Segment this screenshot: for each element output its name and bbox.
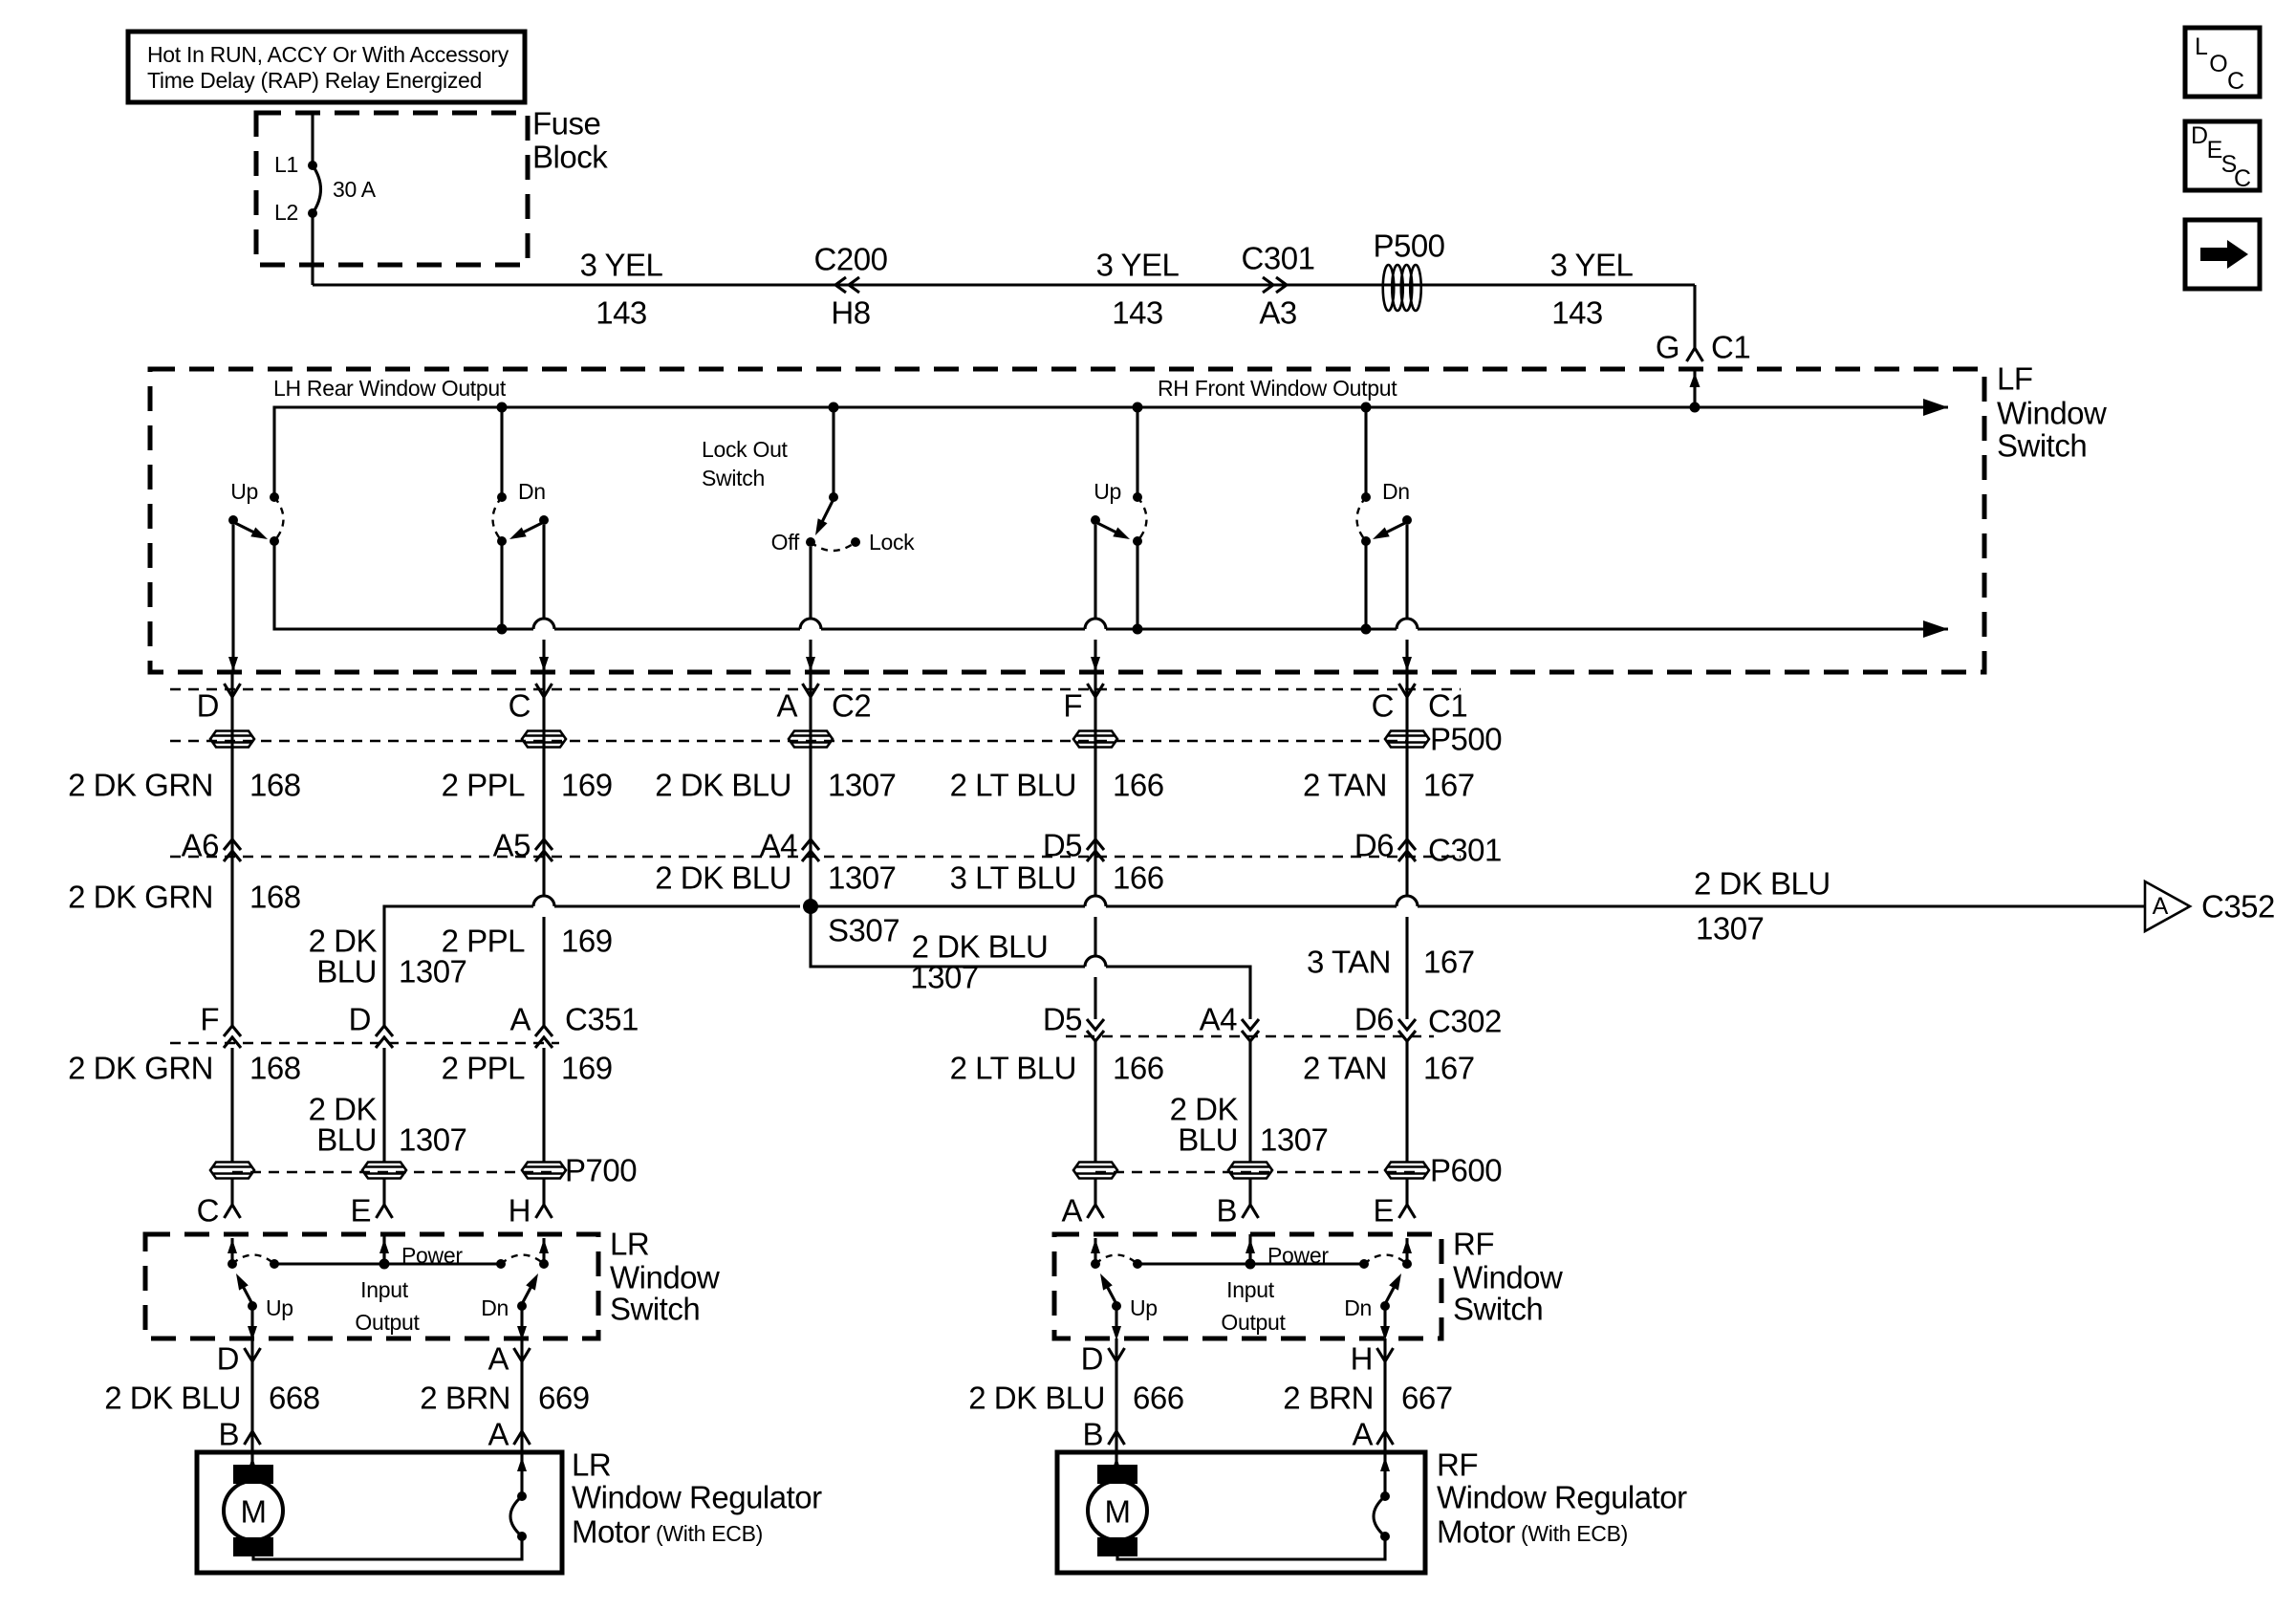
- svg-text:3 YEL: 3 YEL: [1096, 248, 1180, 283]
- svg-text:Power: Power: [1267, 1243, 1329, 1268]
- LH rear Dn switch: [497, 402, 508, 413]
- grommet P600 at x=1146: [1073, 1163, 1117, 1179]
- svg-text:1307: 1307: [399, 954, 466, 990]
- pin D5 of connector C301 at x=1146: [1087, 839, 1104, 850]
- svg-text:2 TAN: 2 TAN: [1303, 768, 1387, 803]
- svg-text:H: H: [1351, 1341, 1373, 1377]
- svg-text:Input: Input: [1226, 1277, 1275, 1302]
- svg-text:O: O: [2209, 51, 2227, 77]
- svg-text:F: F: [200, 1002, 219, 1037]
- svg-text:A4: A4: [760, 828, 798, 863]
- svg-text:LH Rear Window Output: LH Rear Window Output: [273, 376, 507, 401]
- pins into LR window switch C E H: [225, 1205, 241, 1218]
- LR switch dashed contact arcs: [232, 1255, 274, 1265]
- svg-text:Dn: Dn: [1382, 479, 1410, 504]
- svg-text:Output: Output: [355, 1310, 420, 1335]
- svg-text:143: 143: [596, 295, 647, 331]
- connector C302 dashed line: [1066, 1035, 1434, 1037]
- svg-text:3 YEL: 3 YEL: [1550, 248, 1634, 283]
- svg-text:BLU: BLU: [1178, 1122, 1238, 1158]
- svg-text:Output: Output: [1221, 1310, 1286, 1335]
- connector C2 C1 dashed line: [170, 688, 1461, 690]
- pin fork below RF switch right: [1383, 1338, 1386, 1496]
- svg-text:S307: S307: [828, 913, 899, 948]
- connector C351 dashed line: [170, 1042, 559, 1044]
- svg-text:Window: Window: [610, 1260, 720, 1295]
- svg-text:A: A: [1352, 1417, 1373, 1452]
- pin D5 of connector C302 at x=1146: [1087, 1019, 1104, 1030]
- svg-text:C: C: [2234, 165, 2251, 192]
- svg-text:C: C: [1372, 688, 1394, 724]
- svg-text:Switch: Switch: [1453, 1292, 1543, 1327]
- svg-text:L1: L1: [274, 152, 298, 177]
- wire drop to pin G of C1 on LF window switch: [1693, 285, 1696, 348]
- svg-text:2 DK BLU: 2 DK BLU: [968, 1381, 1105, 1416]
- grommet P700 at x=402: [362, 1163, 406, 1179]
- svg-text:A: A: [487, 1417, 509, 1452]
- pin D6 of connector C302 at x=1472: [1398, 1019, 1416, 1030]
- svg-text:A: A: [1061, 1193, 1082, 1229]
- svg-text:667: 667: [1401, 1381, 1453, 1416]
- off-page arrow pin A connector C352: [2145, 881, 2190, 931]
- lower bus wire inside LF switch: [274, 541, 533, 629]
- pin F of connector C351 at x=243: [224, 1026, 241, 1036]
- svg-text:Lock Out: Lock Out: [702, 437, 789, 462]
- LR switch Dn contact arm and output: [517, 1301, 527, 1311]
- LR motor pin forks: [245, 1431, 261, 1445]
- svg-text:1307: 1307: [1260, 1122, 1328, 1158]
- RH front Dn switch: [1361, 402, 1372, 413]
- LR switch power input line: [274, 1262, 501, 1265]
- svg-text:Window Regulator: Window Regulator: [572, 1480, 822, 1515]
- svg-text:2 DK BLU: 2 DK BLU: [655, 860, 791, 896]
- svg-text:Dn: Dn: [518, 479, 546, 504]
- svg-text:Window: Window: [1453, 1260, 1563, 1295]
- RF switch Dn contact arm and output: [1380, 1301, 1390, 1311]
- wire 2 PPL 169 below C301 with hop over S307 bus: [542, 857, 545, 896]
- svg-text:3 LT BLU: 3 LT BLU: [950, 860, 1076, 896]
- pin A5 of connector C301 at x=569: [535, 839, 552, 850]
- grommet P500 at x=569: [542, 730, 545, 857]
- svg-text:Window: Window: [1997, 396, 2107, 431]
- svg-text:A: A: [2153, 893, 2169, 920]
- wires from C351 down to P700 grommets: [230, 1048, 233, 1162]
- svg-text:Up: Up: [230, 479, 258, 504]
- svg-text:H8: H8: [831, 295, 870, 331]
- svg-text:1307: 1307: [399, 1122, 466, 1158]
- svg-text:143: 143: [1551, 295, 1603, 331]
- pin D6 of connector C301 at x=1472: [1398, 839, 1416, 850]
- svg-text:167: 167: [1423, 768, 1475, 803]
- svg-text:A: A: [487, 1341, 509, 1377]
- pin A4 of connector C301 at x=848: [802, 839, 819, 850]
- svg-text:Dn: Dn: [1344, 1295, 1372, 1320]
- grommet P600 at x=1308: [1228, 1163, 1272, 1179]
- svg-text:2 DK BLU: 2 DK BLU: [104, 1381, 241, 1416]
- svg-text:RF: RF: [1453, 1227, 1494, 1262]
- svg-text:F: F: [1063, 688, 1082, 724]
- svg-text:C302: C302: [1428, 1004, 1502, 1039]
- svg-text:Motor: Motor: [572, 1514, 650, 1550]
- svg-text:A: A: [776, 688, 797, 724]
- svg-text:BLU: BLU: [316, 954, 377, 990]
- svg-text:E: E: [1373, 1193, 1394, 1229]
- svg-text:E: E: [350, 1193, 371, 1229]
- svg-text:L: L: [2195, 33, 2208, 60]
- svg-text:Window Regulator: Window Regulator: [1437, 1480, 1687, 1515]
- svg-text:1307: 1307: [828, 860, 896, 896]
- grommet P500 at x=1472: [1405, 730, 1408, 857]
- svg-text:P700: P700: [565, 1153, 637, 1188]
- svg-text:2 BRN: 2 BRN: [420, 1381, 510, 1416]
- grommet P500 at x=848: [809, 730, 812, 857]
- grommet P500 at x=1146: [1094, 730, 1096, 857]
- svg-text:169: 169: [561, 924, 613, 959]
- svg-text:G: G: [1656, 330, 1679, 365]
- svg-text:C2: C2: [832, 688, 871, 724]
- LH rear Up switch: [270, 492, 279, 502]
- svg-text:2 TAN: 2 TAN: [1303, 1051, 1387, 1086]
- svg-text:C351: C351: [565, 1002, 639, 1037]
- RF switch dashed contact arcs: [1095, 1255, 1137, 1265]
- svg-text:LF: LF: [1997, 361, 2033, 397]
- svg-text:C301: C301: [1242, 241, 1315, 276]
- svg-text:C352: C352: [2201, 889, 2275, 925]
- note box: Hot In RUN, ACCY Or With Accessory Time Delay (RAP) Relay Energized: [128, 32, 525, 102]
- LF window switch dashed box: [150, 369, 1984, 672]
- RF switch Up contact arm and output: [1112, 1301, 1121, 1311]
- svg-text:D: D: [1081, 1341, 1103, 1377]
- svg-text:D6: D6: [1354, 828, 1394, 863]
- svg-text:3 YEL: 3 YEL: [580, 248, 663, 283]
- svg-text:D: D: [217, 1341, 239, 1377]
- svg-text:2 PPL: 2 PPL: [442, 924, 526, 959]
- junction dot G wire to top bus: [1690, 402, 1700, 413]
- svg-text:C200: C200: [814, 242, 888, 277]
- svg-text:666: 666: [1133, 1381, 1184, 1416]
- svg-text:Time Delay (RAP) Relay Energiz: Time Delay (RAP) Relay Energized: [147, 68, 482, 93]
- svg-text:2 DK BLU: 2 DK BLU: [655, 768, 791, 803]
- grommet row P600 dashed line: [1095, 1171, 1418, 1173]
- svg-text:1307: 1307: [1696, 911, 1764, 946]
- pin D of connector C351 at x=402: [376, 1026, 393, 1036]
- svg-text:Switch: Switch: [1997, 428, 2087, 464]
- connector C200 pin H8 inline arrows: [835, 277, 846, 293]
- grommet P700 at x=243: [210, 1163, 254, 1179]
- svg-text:2 DK GRN: 2 DK GRN: [68, 768, 213, 803]
- fuse F 30A with terminals L1 L2: [311, 113, 314, 165]
- pin D fork of connector row C2/C1 at x=243: [230, 672, 233, 730]
- LR switch Up contact arm and output: [248, 1301, 257, 1311]
- svg-text:RF: RF: [1437, 1447, 1478, 1483]
- svg-text:166: 166: [1113, 768, 1164, 803]
- svg-text:L2: L2: [274, 200, 298, 225]
- grommet row P500 dashed line: [170, 740, 1407, 742]
- svg-text:P500: P500: [1430, 722, 1502, 757]
- svg-text:2 PPL: 2 PPL: [442, 1051, 526, 1086]
- svg-text:2 DK GRN: 2 DK GRN: [68, 880, 213, 915]
- svg-text:Hot In RUN, ACCY Or With Acces: Hot In RUN, ACCY Or With Accessory: [147, 42, 509, 67]
- svg-text:143: 143: [1112, 295, 1163, 331]
- svg-text:A3: A3: [1259, 295, 1296, 331]
- pin fork below LR switch right: [520, 1338, 523, 1496]
- svg-text:2 BRN: 2 BRN: [1283, 1381, 1374, 1416]
- svg-text:(With ECB): (With ECB): [1521, 1521, 1628, 1546]
- svg-text:669: 669: [538, 1381, 590, 1416]
- svg-text:LR: LR: [610, 1227, 649, 1262]
- svg-text:H: H: [509, 1193, 531, 1229]
- grommet P500 inline coil on feed wire: [1383, 265, 1395, 311]
- LR window regulator motor box: [197, 1452, 562, 1573]
- svg-text:2 PPL: 2 PPL: [442, 768, 526, 803]
- svg-text:B: B: [1216, 1193, 1237, 1229]
- svg-text:166: 166: [1113, 860, 1164, 896]
- svg-text:C1: C1: [1428, 688, 1467, 724]
- svg-text:1307: 1307: [828, 768, 896, 803]
- RF window regulator motor box: [1057, 1452, 1425, 1573]
- pin F fork of connector row C2/C1 at x=1146: [1094, 672, 1096, 730]
- svg-text:D: D: [2191, 122, 2208, 149]
- svg-text:C: C: [2227, 68, 2244, 95]
- svg-text:Up: Up: [266, 1295, 293, 1320]
- wire 3 TAN 167 below C301 with hop over S307 bus: [1405, 857, 1408, 896]
- legend box forward arrow: [2185, 220, 2260, 289]
- pin A6 of connector C301 at x=243: [224, 839, 241, 850]
- svg-text:2 DK BLU: 2 DK BLU: [1694, 866, 1830, 902]
- svg-text:Off: Off: [771, 530, 800, 555]
- svg-text:M: M: [1105, 1494, 1131, 1530]
- legend box DESC: [2185, 121, 2260, 190]
- LR motor symbol: [233, 1465, 273, 1484]
- svg-text:A: A: [509, 1002, 531, 1037]
- svg-text:D6: D6: [1354, 1002, 1394, 1037]
- pin A of connector C351 at x=569: [535, 1026, 552, 1036]
- svg-text:Switch: Switch: [702, 466, 765, 490]
- pins into RF window switch A B E: [1088, 1205, 1104, 1218]
- svg-text:M: M: [241, 1494, 267, 1530]
- connector C301 dashed line: [170, 856, 1461, 858]
- svg-text:D: D: [197, 688, 219, 724]
- top bus wire LH Rear Window Output: [274, 407, 1948, 497]
- fuse block dashed box: [256, 113, 528, 265]
- svg-text:C1: C1: [1711, 330, 1750, 365]
- svg-text:C: C: [197, 1193, 219, 1229]
- svg-text:Input: Input: [360, 1277, 409, 1302]
- svg-text:BLU: BLU: [316, 1122, 377, 1158]
- RF switch power input line: [1137, 1262, 1364, 1265]
- svg-text:RH Front Window Output: RH Front Window Output: [1158, 376, 1397, 401]
- svg-text:169: 169: [561, 1051, 613, 1086]
- svg-text:Lock: Lock: [869, 530, 915, 555]
- grommet P700 at x=569: [522, 1163, 566, 1179]
- svg-text:168: 168: [249, 880, 301, 915]
- svg-text:169: 169: [561, 768, 613, 803]
- svg-text:167: 167: [1423, 945, 1475, 980]
- svg-text:30 A: 30 A: [333, 177, 377, 202]
- pin C fork of connector row C2/C1 at x=1472: [1405, 672, 1408, 730]
- LR motor circuit breaker ECB: [517, 1457, 527, 1471]
- svg-text:166: 166: [1113, 1051, 1164, 1086]
- RH front Up switch: [1133, 402, 1143, 413]
- svg-text:C: C: [509, 688, 531, 724]
- svg-text:D: D: [349, 1002, 371, 1037]
- svg-text:1307: 1307: [910, 960, 978, 995]
- RF motor circuit breaker ECB: [1380, 1457, 1390, 1471]
- svg-text:Block: Block: [532, 140, 608, 175]
- svg-text:B: B: [1082, 1417, 1103, 1452]
- svg-text:A4: A4: [1200, 1002, 1238, 1037]
- svg-text:2 DK GRN: 2 DK GRN: [68, 1051, 213, 1086]
- svg-text:Motor: Motor: [1437, 1514, 1515, 1550]
- legend box LOC: [2185, 28, 2260, 97]
- svg-text:P600: P600: [1430, 1153, 1502, 1188]
- svg-text:B: B: [218, 1417, 239, 1452]
- svg-text:Up: Up: [1130, 1295, 1158, 1320]
- LR window switch dashed box: [145, 1234, 598, 1338]
- svg-text:Up: Up: [1094, 479, 1121, 504]
- RF switch pin arrows into box: [1248, 1234, 1251, 1264]
- svg-text:A6: A6: [182, 828, 219, 863]
- pin D fork below LR switch: [250, 1338, 253, 1465]
- pin C fork of connector row C2/C1 at x=569: [542, 672, 545, 730]
- grommet P500 at x=243: [230, 730, 233, 857]
- svg-text:Switch: Switch: [610, 1292, 700, 1327]
- svg-text:LR: LR: [572, 1447, 611, 1483]
- svg-text:D5: D5: [1043, 828, 1082, 863]
- svg-text:2 LT BLU: 2 LT BLU: [950, 1051, 1076, 1086]
- svg-text:Fuse: Fuse: [532, 106, 600, 141]
- svg-text:(With ECB): (With ECB): [656, 1521, 763, 1546]
- pin D fork below RF switch: [1115, 1338, 1117, 1465]
- svg-text:668: 668: [269, 1381, 320, 1416]
- svg-text:D5: D5: [1043, 1002, 1082, 1037]
- branch wire 2 DK BLU 1307 from S307 to A4 of C302: [811, 906, 1085, 967]
- svg-text:C301: C301: [1428, 833, 1502, 868]
- wire 2 DK BLU 1307 from A4 to S307: [809, 857, 812, 906]
- connector C301 pin A3 inline arrows: [1263, 277, 1273, 293]
- svg-text:Dn: Dn: [481, 1295, 509, 1320]
- svg-text:Power: Power: [401, 1243, 463, 1268]
- wires from C302 down to P600 grommets: [1094, 1041, 1096, 1162]
- pin A fork of connector row C2/C1 at x=848: [809, 672, 812, 730]
- wire 2 DK GRN 168 below C301: [230, 857, 233, 1026]
- svg-text:168: 168: [249, 768, 301, 803]
- svg-text:167: 167: [1423, 1051, 1475, 1086]
- grommet P600 at x=1472: [1385, 1163, 1429, 1179]
- svg-text:2 LT BLU: 2 LT BLU: [950, 768, 1076, 803]
- svg-text:168: 168: [249, 1051, 301, 1086]
- svg-text:3 TAN: 3 TAN: [1307, 945, 1391, 980]
- RF motor pin forks: [1109, 1431, 1125, 1445]
- svg-text:P500: P500: [1373, 228, 1444, 264]
- LR switch pin arrows into box: [382, 1234, 385, 1264]
- RF window switch dashed box: [1054, 1234, 1441, 1338]
- pin A4 of connector C302 at x=1308: [1242, 1019, 1259, 1030]
- svg-text:A5: A5: [493, 828, 531, 863]
- RF motor symbol: [1097, 1465, 1137, 1484]
- wire: 3 YEL 143 feed from fuse to LF window switch: [313, 283, 1695, 286]
- splice S307 bus wire 2 DK BLU 1307 to C352: [384, 906, 533, 1026]
- grommet row P700 dashed line: [232, 1171, 554, 1173]
- wire 3 LT BLU 166 below C301 with hop over S307 bus: [1094, 857, 1096, 896]
